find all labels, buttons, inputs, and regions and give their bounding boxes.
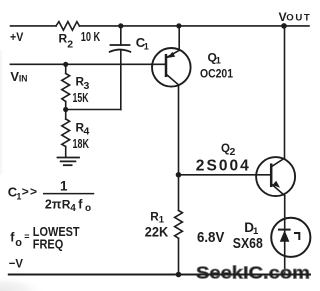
resistor R2 <box>56 22 79 31</box>
wire C1 bottom lead down to divider tap <box>120 51 122 110</box>
svg-text:6.8V: 6.8V <box>197 230 225 246</box>
svg-text:FREQ: FREQ <box>33 236 64 251</box>
wire VOUT vertical to Q2 collector <box>284 26 286 158</box>
node junction VIN / R3 <box>63 62 68 67</box>
svg-text:1: 1 <box>216 56 222 67</box>
svg-text:1: 1 <box>144 41 149 51</box>
fraction bar of C1 formula <box>44 193 94 195</box>
svg-text:SeekIC.com: SeekIC.com <box>196 263 310 283</box>
wire Q2 emitter through D1 to -V rail <box>284 196 286 275</box>
label R2 <box>59 32 74 51</box>
wire R1 bottom lead <box>178 238 180 274</box>
label formula fo = LOWEST FREQ <box>10 224 79 251</box>
ground <box>58 158 80 166</box>
label formula C1 >> 1/(2 pi R4 fo) <box>8 179 91 215</box>
wire R3 bottom lead <box>65 102 67 110</box>
svg-text:1: 1 <box>60 179 68 194</box>
diode D1 (zener) <box>271 218 310 257</box>
wire R4 top lead <box>65 110 67 120</box>
wire Q1 collector down to R1 node <box>178 85 180 175</box>
wire R3 top lead <box>65 64 67 73</box>
svg-text:f: f <box>78 197 83 211</box>
svg-text:SX68: SX68 <box>233 236 263 252</box>
label R3 <box>76 74 90 92</box>
svg-text:OUT: OUT <box>286 13 310 24</box>
svg-text:2π: 2π <box>45 197 62 211</box>
wire R4 bottom lead <box>65 147 67 157</box>
resistor R3 <box>62 74 70 102</box>
node junction Q1 collector / Q2 base / R1 <box>176 172 182 178</box>
wire +V top rail left segment <box>11 25 57 27</box>
svg-text:15K: 15K <box>73 90 89 105</box>
svg-text:2: 2 <box>67 38 73 50</box>
wire R1 top lead <box>178 175 180 211</box>
label Q1 <box>208 51 222 67</box>
svg-text:R: R <box>59 32 68 46</box>
svg-text:4: 4 <box>70 203 76 214</box>
label D1 <box>244 220 259 237</box>
resistor R1 <box>175 211 183 239</box>
wire Q2 base lead <box>179 174 272 176</box>
node junction R3/R4 tap <box>63 107 68 112</box>
svg-text:o: o <box>85 203 91 214</box>
wire -V bottom rail <box>9 274 310 276</box>
label Q2 <box>221 143 236 158</box>
wire VIN rail / Q1 base lead <box>10 63 166 65</box>
svg-text:22K: 22K <box>145 224 169 240</box>
svg-text:+V: +V <box>10 30 24 44</box>
node junction Q1 emitter / top rail <box>176 23 181 28</box>
svg-text:IN: IN <box>19 74 28 84</box>
label C1 <box>136 35 149 51</box>
node VOUT junction <box>281 23 287 29</box>
transistor Q2 <box>256 157 295 196</box>
svg-text:−V: −V <box>9 256 24 270</box>
svg-text:10 K: 10 K <box>81 29 101 44</box>
svg-text:o: o <box>15 237 22 249</box>
resistor R4 <box>62 119 70 147</box>
capacitor C1 <box>110 45 131 52</box>
label R4 <box>76 120 90 137</box>
wire C1 top lead <box>120 26 122 45</box>
node junction R1 / -V rail <box>176 272 182 278</box>
wire Q1 emitter lead to top rail <box>178 26 180 50</box>
svg-text:1: 1 <box>16 192 21 202</box>
svg-text:2: 2 <box>230 146 236 158</box>
node junction R2/C1 <box>118 23 123 28</box>
svg-text:>>: >> <box>22 185 37 199</box>
wire top rail from R2 to VOUT corner <box>79 25 309 27</box>
svg-text:18K: 18K <box>73 136 90 151</box>
svg-text:2S004: 2S004 <box>196 158 249 175</box>
svg-text:OC201: OC201 <box>200 66 233 80</box>
label R1 <box>150 210 165 226</box>
svg-text:=: = <box>24 231 29 241</box>
transistor Q1 <box>152 48 191 87</box>
wire divider tap to C1 <box>66 109 121 111</box>
